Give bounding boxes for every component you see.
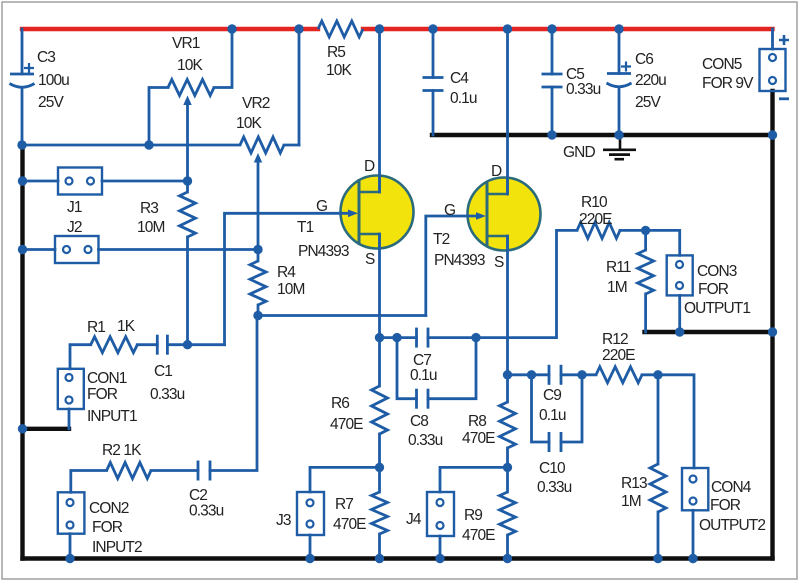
wire: C7 right segment to R10 riser	[428, 230, 577, 337]
wire: C7 left segment	[380, 336, 417, 339]
svg-text:INPUT2: INPUT2	[92, 539, 142, 556]
label J3	[276, 512, 291, 529]
label CON3 for	[698, 281, 729, 298]
label R1 value	[117, 318, 136, 335]
wire: J1 left lead	[23, 180, 59, 183]
svg-text:C1: C1	[154, 363, 172, 380]
svg-text:CON1: CON1	[87, 370, 127, 387]
svg-text:C4: C4	[450, 70, 469, 87]
svg-text:C6: C6	[635, 51, 653, 68]
wire: R1 left lead	[70, 345, 91, 369]
wire: VR1 right lead	[214, 29, 232, 88]
connector J4	[427, 492, 454, 536]
label J2	[67, 219, 82, 236]
label C3 value	[38, 72, 69, 89]
svg-text:R11: R11	[606, 259, 631, 276]
resistor R2	[107, 463, 151, 479]
label C1 value	[150, 386, 185, 403]
label C3 voltage	[38, 94, 64, 111]
wire: R2 to C2	[151, 469, 198, 472]
resistor R1	[91, 337, 138, 353]
svg-text:1M: 1M	[607, 279, 627, 296]
wire: T2 drain lead	[506, 29, 509, 194]
wire: C8 loop left	[397, 338, 417, 399]
svg-text:PN4393: PN4393	[434, 252, 485, 269]
label CON3 usage	[684, 300, 750, 317]
node: CON5 minus mark	[779, 97, 789, 100]
label C3	[37, 49, 55, 66]
capacitor C5	[542, 74, 563, 87]
svg-text:GND: GND	[563, 144, 595, 161]
svg-text:0.33u: 0.33u	[537, 479, 572, 496]
wire: right black vertical (CON5 minus to bottom)	[770, 91, 774, 559]
resistor R10	[577, 222, 620, 238]
wire: horizontal bias wire y=145	[22, 29, 299, 145]
svg-text:R2 1K: R2 1K	[102, 442, 142, 459]
wire: J4 bottom lead	[439, 536, 442, 559]
wire: C3 top lead	[21, 29, 24, 74]
resistor R12	[596, 367, 642, 383]
resistor R6	[372, 386, 388, 434]
label R11	[606, 259, 631, 276]
svg-text:VR1: VR1	[172, 35, 200, 52]
svg-text:10M: 10M	[277, 281, 304, 298]
connector CON3	[667, 255, 693, 295]
label C8	[410, 413, 428, 430]
label R6	[331, 395, 349, 412]
svg-text:0.33u: 0.33u	[566, 81, 601, 98]
capacitor C9	[549, 365, 561, 385]
label R5	[327, 44, 345, 61]
node: C6 plus sign	[621, 62, 631, 72]
label C6 value	[635, 72, 666, 89]
resistor R13	[650, 464, 666, 512]
label CON4	[711, 479, 752, 496]
potentiometer VR2	[240, 137, 284, 163]
label R7	[335, 496, 353, 513]
svg-text:100u: 100u	[38, 72, 69, 89]
wire: T2 source lead	[506, 236, 509, 402]
label R11 value	[607, 279, 627, 296]
svg-text:R13: R13	[621, 475, 647, 492]
label T2 source S	[494, 254, 504, 271]
label C2 value	[189, 503, 224, 520]
svg-text:C2: C2	[189, 487, 207, 504]
wire: J4 top lead	[440, 467, 508, 492]
label T2 gate G	[444, 202, 455, 219]
svg-text:0.1u: 0.1u	[410, 367, 437, 384]
svg-text:1K: 1K	[117, 318, 136, 335]
wire: CON2 bottom lead	[69, 534, 72, 559]
resistor R9	[500, 492, 516, 535]
label CON5	[702, 56, 742, 73]
label VR1 value	[177, 57, 203, 74]
svg-text:0.33u: 0.33u	[408, 432, 443, 449]
wire: R7 bottom lead	[378, 534, 381, 559]
label VR2 value	[236, 115, 262, 132]
svg-text:J2: J2	[67, 219, 82, 236]
label CON1 for	[87, 386, 118, 403]
wire: C4 bottom lead	[432, 91, 435, 136]
wire: R2 left lead	[71, 471, 107, 493]
svg-text:INPUT1: INPUT1	[87, 408, 137, 425]
svg-text:CON5: CON5	[702, 56, 742, 73]
svg-text:R1: R1	[87, 319, 105, 336]
label T1 gate G	[316, 198, 327, 215]
label CON4 for	[710, 497, 741, 514]
svg-text:CON4: CON4	[711, 479, 752, 496]
label T1	[297, 219, 314, 236]
svg-text:10K: 10K	[326, 62, 352, 79]
wire: OUTPUT1 ground rail (black)	[645, 330, 773, 334]
svg-text:R6: R6	[331, 395, 349, 412]
wire: VR2 wiper down to J2 node	[257, 161, 260, 261]
label C7 value	[410, 367, 437, 384]
label R10	[581, 194, 608, 211]
label C9 value	[539, 407, 566, 424]
svg-text:R4: R4	[277, 264, 296, 281]
label T1 source S	[365, 251, 375, 268]
svg-text:R5: R5	[327, 44, 345, 61]
wire: R10 right to CON3	[620, 230, 680, 255]
label R8 value	[462, 430, 495, 447]
label CON2	[89, 500, 129, 517]
svg-text:CON3: CON3	[697, 263, 737, 280]
svg-text:FOR: FOR	[87, 386, 118, 403]
label CON1 usage	[87, 408, 137, 425]
label R9 value	[462, 527, 495, 544]
svg-text:0.1u: 0.1u	[450, 90, 477, 107]
label R3	[140, 200, 158, 217]
svg-text:10K: 10K	[177, 57, 203, 74]
svg-text:R3: R3	[140, 200, 158, 217]
wire: bottom black ground rail	[23, 556, 773, 560]
wire: J2 left lead	[23, 248, 56, 251]
wire: VR1 left lead	[149, 88, 168, 146]
label R6 value	[330, 416, 363, 433]
label C7	[413, 352, 431, 369]
svg-text:D: D	[364, 158, 375, 175]
svg-text:C3: C3	[37, 49, 55, 66]
label CON2 for	[92, 519, 123, 536]
node: C3 plus sign	[24, 63, 34, 73]
svg-text:470E: 470E	[462, 527, 495, 544]
svg-text:G: G	[316, 198, 327, 215]
capacitor C3	[10, 74, 35, 87]
wire: CON1 ground stub (black)	[23, 427, 70, 431]
resistor R11	[638, 250, 654, 294]
capacitor C2	[198, 461, 210, 481]
wire: CON5 plus lead	[771, 29, 774, 49]
wire: C6 top lead	[618, 29, 621, 74]
label C6 voltage	[635, 94, 661, 111]
label C1	[154, 363, 172, 380]
label GND	[563, 144, 595, 161]
connector CON2	[58, 492, 85, 533]
wire: C10 loop left	[532, 375, 550, 442]
svg-text:220E: 220E	[579, 211, 612, 228]
wire: R4-T2gate horizontal	[258, 314, 426, 317]
svg-text:G: G	[444, 202, 455, 219]
label C10	[539, 460, 566, 477]
svg-text:D: D	[491, 163, 502, 180]
resistor R5	[318, 21, 363, 37]
svg-text:FOR: FOR	[92, 519, 123, 536]
label R10 value	[579, 211, 612, 228]
label CON3	[697, 263, 737, 280]
svg-text:1M: 1M	[621, 493, 641, 510]
label T2 drain D	[491, 163, 502, 180]
label R12	[602, 331, 628, 348]
label R2	[102, 442, 142, 459]
svg-text:R10: R10	[581, 194, 608, 211]
label C9	[543, 387, 561, 404]
transistor T1 (PN4393 JFET)	[341, 176, 414, 249]
svg-text:S: S	[365, 251, 375, 268]
svg-text:R9: R9	[464, 507, 482, 524]
label CON4 usage	[699, 517, 765, 534]
svg-text:0.33u: 0.33u	[189, 503, 224, 520]
capacitor C4	[423, 78, 444, 91]
svg-text:10M: 10M	[137, 219, 164, 236]
wire: R11 top lead	[644, 230, 647, 250]
label R3 value	[137, 219, 164, 236]
svg-text:FOR: FOR	[710, 497, 741, 514]
svg-text:220E: 220E	[602, 347, 635, 364]
wire: CON4 bottom lead	[692, 510, 695, 558]
svg-text:OUTPUT1: OUTPUT1	[684, 300, 750, 317]
resistor R8	[500, 402, 516, 448]
label R4 value	[277, 281, 304, 298]
label J1	[67, 199, 82, 216]
label C5	[566, 66, 584, 83]
capacitor C6	[607, 74, 632, 87]
label T1 drain D	[364, 158, 375, 175]
label T2	[433, 231, 450, 248]
svg-text:S: S	[494, 254, 504, 271]
svg-text:C10: C10	[539, 460, 566, 477]
label R9	[464, 507, 482, 524]
capacitor C8	[417, 389, 429, 409]
resistor R4	[250, 261, 266, 305]
wire: J1 right lead	[102, 180, 188, 183]
wire: R1 to C1	[137, 343, 157, 346]
label C8 value	[408, 432, 443, 449]
label C6	[635, 51, 653, 68]
wire: C5 top lead	[551, 29, 554, 74]
capacitor C10	[549, 432, 561, 452]
label R12 value	[602, 347, 635, 364]
svg-text:J3: J3	[276, 512, 291, 529]
wire: C3 bottom lead	[21, 89, 24, 145]
wire: T1 source lead	[378, 234, 381, 386]
wire: J2 right lead	[99, 248, 259, 251]
connector CON5	[760, 49, 786, 91]
capacitor C1	[157, 335, 167, 355]
svg-text:R12: R12	[602, 331, 628, 348]
svg-text:R7: R7	[335, 496, 353, 513]
svg-text:470E: 470E	[330, 416, 363, 433]
wire: J3 bottom lead	[309, 535, 312, 559]
svg-text:FOR 9V: FOR 9V	[702, 75, 754, 92]
label VR2	[242, 95, 270, 112]
label R8	[468, 413, 486, 430]
wire: T1 drain lead	[378, 29, 381, 192]
svg-text:CON2: CON2	[89, 500, 129, 517]
svg-text:C8: C8	[410, 413, 428, 430]
label C4	[450, 70, 469, 87]
svg-text:T1: T1	[297, 219, 314, 236]
label R5 value	[326, 62, 352, 79]
svg-text:C9: C9	[543, 387, 561, 404]
svg-text:R8: R8	[468, 413, 486, 430]
wire: C1 to T1 gate node	[167, 343, 224, 346]
svg-text:0.1u: 0.1u	[539, 407, 566, 424]
wire: R13 bottom lead	[657, 512, 660, 559]
wire: R12 right to CON4	[642, 375, 694, 468]
label T2 part	[434, 252, 485, 269]
label CON5 usage	[702, 75, 754, 92]
svg-text:10K: 10K	[236, 115, 262, 132]
svg-text:0.33u: 0.33u	[150, 386, 185, 403]
label T1 part	[298, 243, 349, 260]
label VR1	[172, 35, 200, 52]
resistor R3	[180, 192, 196, 237]
svg-text:25V: 25V	[635, 94, 661, 111]
label R13	[621, 475, 647, 492]
label R13 value	[621, 493, 641, 510]
wire: C5 bottom lead	[551, 87, 554, 135]
label R4	[277, 264, 296, 281]
svg-text:J1: J1	[67, 199, 82, 216]
wire: R11 bottom lead	[644, 294, 647, 332]
capacitor C7	[417, 328, 429, 348]
wire: GND black rail (upper)	[432, 133, 773, 137]
svg-text:OUTPUT2: OUTPUT2	[699, 517, 765, 534]
wire: C9 right segment	[561, 373, 596, 376]
wire: C9 left segment	[508, 373, 550, 376]
svg-text:220u: 220u	[635, 72, 666, 89]
wire: left black vertical	[20, 145, 24, 559]
label C10 value	[537, 479, 572, 496]
connector J2	[55, 236, 99, 263]
label CON1	[87, 370, 127, 387]
potentiometer VR1	[168, 80, 214, 106]
svg-text:PN4393: PN4393	[298, 243, 349, 260]
wire: J3 top lead	[310, 467, 380, 492]
connector CON1	[58, 369, 84, 409]
label J4	[406, 511, 422, 528]
label C2	[189, 487, 207, 504]
wire: C2 to R4 node	[210, 316, 257, 471]
svg-text:470E: 470E	[333, 516, 366, 533]
svg-text:FOR: FOR	[698, 281, 729, 298]
wire: T1 gate wire	[225, 210, 359, 345]
wire: +9V red rail (top)	[22, 27, 773, 31]
connector CON4	[682, 468, 708, 510]
wire: T2 gate wire	[426, 212, 486, 315]
label C4 value	[450, 90, 477, 107]
svg-text:470E: 470E	[462, 430, 495, 447]
svg-text:VR2: VR2	[242, 95, 270, 112]
ground symbol GND	[603, 135, 636, 159]
svg-text:25V: 25V	[38, 94, 64, 111]
wire: C10 loop right	[561, 375, 582, 442]
label CON2 usage	[92, 539, 142, 556]
wire: R9 bottom lead	[506, 535, 509, 559]
wire: VR1 wiper down to R3	[186, 104, 189, 192]
wire: C4 top lead	[432, 29, 435, 78]
connector J3	[297, 492, 324, 535]
wire: CON3 bottom lead	[678, 295, 681, 332]
wire: CON1 bottom lead	[68, 409, 71, 429]
wire: C8 loop right	[428, 338, 476, 399]
svg-text:T2: T2	[433, 231, 450, 248]
connector J1	[58, 168, 102, 195]
transistor T2 (PN4393 JFET)	[468, 178, 541, 251]
wire: R6 to R7	[378, 434, 381, 492]
wire: R8 to R9	[506, 448, 509, 492]
wire: R13 top lead	[657, 375, 660, 464]
svg-text:J4: J4	[406, 511, 422, 528]
wire: C6 bottom lead	[618, 88, 621, 135]
label C5 value	[566, 81, 601, 98]
resistor R7	[372, 492, 388, 534]
wire: R4 bottom lead	[257, 305, 260, 316]
wire: R3 bottom lead	[186, 237, 189, 345]
node: CON5 plus mark	[779, 35, 789, 45]
label R7 value	[333, 516, 366, 533]
label R1	[87, 319, 105, 336]
